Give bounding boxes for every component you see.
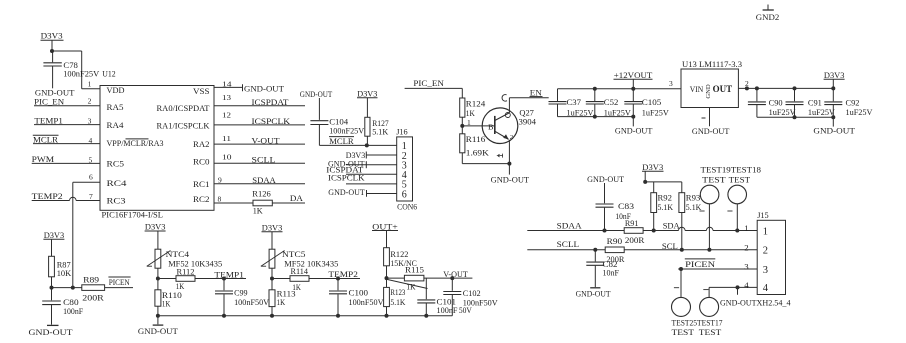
- svg-text:3: 3: [669, 79, 673, 88]
- svg-text:SDA: SDA: [663, 220, 681, 230]
- resistor R114: [290, 276, 309, 282]
- net SDA wire to J15: [643, 230, 678, 232]
- svg-text:C91: C91: [808, 99, 822, 108]
- svg-text:3: 3: [88, 117, 92, 126]
- svg-text:100nF50V: 100nF50V: [463, 297, 499, 307]
- wire base of Q27: [462, 125, 495, 127]
- svg-text:U12: U12: [102, 69, 116, 79]
- svg-text:B: B: [488, 123, 494, 131]
- svg-text:2: 2: [744, 242, 748, 252]
- ground GND-OUT (C80): [47, 324, 59, 326]
- net TEMP2: [309, 278, 360, 280]
- svg-text:100nF: 100nF: [437, 305, 458, 315]
- svg-text:SCL: SCL: [662, 241, 678, 251]
- svg-text:C37: C37: [567, 98, 582, 107]
- svg-text:GND-OUT: GND-OUT: [29, 327, 74, 337]
- svg-text:C92: C92: [846, 99, 860, 108]
- svg-text:J15: J15: [757, 210, 769, 220]
- capacitor C91: [794, 88, 796, 101]
- resistor R124: [460, 98, 465, 117]
- node MCLR/R127 junction: [365, 143, 369, 147]
- svg-text:GND-OUT: GND-OUT: [692, 126, 730, 136]
- wire J15 pin4 / GND-OUT: [709, 286, 757, 288]
- svg-text:1uF25V: 1uF25V: [808, 108, 835, 117]
- thermistor NTC5 MF52 10K3435: [269, 249, 275, 268]
- ground GND2: [767, 5, 769, 10]
- svg-text:D3V3: D3V3: [41, 31, 64, 41]
- svg-text:RC0: RC0: [193, 157, 210, 167]
- svg-text:RA4: RA4: [107, 120, 125, 130]
- resistor R93: [681, 182, 683, 193]
- svg-text:RA2: RA2: [193, 139, 210, 149]
- svg-text:D3V3: D3V3: [642, 162, 664, 172]
- capacitor C83: [596, 203, 614, 205]
- node D3V3/C78 junction: [50, 49, 54, 53]
- svg-text:R114: R114: [291, 266, 309, 276]
- svg-text:R90: R90: [607, 236, 623, 246]
- svg-text:100nF25V: 100nF25V: [329, 125, 365, 135]
- net SCLL (U12 pin10): [214, 162, 305, 164]
- svg-text:GND-OUT: GND-OUT: [300, 89, 333, 99]
- svg-text:TEMP1: TEMP1: [214, 269, 244, 279]
- wire gnd rail (input bank): [558, 116, 634, 118]
- ground port GND-OUT (input bank): [632, 117, 634, 127]
- svg-text:R91: R91: [625, 218, 639, 228]
- port GND-OUT (J16 pin3): [346, 164, 397, 166]
- capacitor C104: [310, 120, 328, 122]
- wire PIC_EN down to R124: [461, 88, 463, 98]
- thermistor NTC4 MF52 10K3435: [155, 249, 161, 268]
- svg-text:NTC4: NTC4: [166, 249, 190, 259]
- resistor R110: [155, 290, 161, 306]
- svg-text:GND2: GND2: [756, 12, 780, 22]
- ground GND-OUT (C82): [590, 287, 600, 289]
- ground port GND-OUT (output bank): [832, 117, 834, 126]
- svg-text:C90: C90: [769, 99, 783, 108]
- svg-text:TEMP2: TEMP2: [328, 269, 358, 279]
- svg-text:TEST: TEST: [699, 327, 722, 337]
- svg-text:1uF25V: 1uF25V: [567, 108, 594, 117]
- svg-text:PICEN: PICEN: [109, 277, 131, 287]
- op-amp U12 PIC16F1704 body: [100, 86, 214, 211]
- svg-text:1K: 1K: [466, 108, 476, 118]
- node SDA/R92: [652, 229, 656, 233]
- capacitor C90: [756, 88, 758, 101]
- svg-text:2: 2: [510, 134, 514, 141]
- node rail/C52: [593, 87, 597, 91]
- net DA (U12 pin8): [272, 202, 305, 204]
- node R122/R115/R123 junction: [386, 266, 388, 288]
- svg-text:XH2.54_4: XH2.54_4: [757, 298, 792, 308]
- svg-text:1uF25V: 1uF25V: [846, 108, 873, 117]
- capacitor C100: [337, 279, 339, 291]
- wire +12V rail top: [558, 88, 682, 90]
- wire gnd rail (output bank): [757, 116, 833, 118]
- node R124/R116/base junction: [461, 117, 463, 134]
- svg-text:10K: 10K: [57, 268, 72, 278]
- svg-text:R126: R126: [252, 188, 271, 198]
- wire D3V3 to U12 pin1: [52, 50, 82, 52]
- svg-text:C102: C102: [463, 288, 481, 298]
- node emitter/GND junction: [507, 162, 511, 166]
- svg-text:9: 9: [218, 176, 222, 185]
- node R87/C80/R89 junction: [51, 277, 53, 288]
- svg-text:VIN: VIN: [690, 84, 704, 94]
- svg-text:TEST: TEST: [729, 175, 751, 185]
- svg-text:RC4: RC4: [107, 178, 128, 188]
- svg-text:SCLL: SCLL: [557, 239, 580, 249]
- svg-text:D3V3: D3V3: [262, 222, 283, 232]
- transistor Q27 2N3904: [482, 108, 518, 144]
- resistor R89: [82, 285, 105, 291]
- svg-text:TEMP2: TEMP2: [32, 191, 63, 201]
- port GND-OUT (U12 pin14): [214, 86, 243, 88]
- svg-text:200R: 200R: [625, 235, 645, 245]
- svg-text:10: 10: [222, 153, 232, 162]
- resistor R126: [214, 202, 253, 204]
- svg-text:R112: R112: [177, 266, 195, 276]
- svg-text:2: 2: [763, 246, 768, 257]
- net TEMP1: [195, 278, 246, 280]
- net SDAA (U12 pin9): [214, 183, 305, 185]
- resistor R113: [269, 290, 275, 307]
- resistor R87: [49, 256, 55, 277]
- svg-text:6: 6: [402, 189, 407, 200]
- svg-text:D3V3: D3V3: [824, 70, 845, 80]
- svg-text:MCLR: MCLR: [33, 134, 58, 144]
- svg-text:6: 6: [89, 173, 93, 182]
- svg-text:RC3: RC3: [107, 195, 127, 205]
- node SDA/TEST18: [735, 229, 739, 233]
- svg-text:VSS: VSS: [193, 86, 210, 96]
- svg-text:RC1: RC1: [193, 179, 210, 189]
- svg-text:SDAA: SDAA: [252, 175, 276, 185]
- net ICSPDAT (J16 pin4): [346, 173, 397, 175]
- net ICSPDAT (U12 pin13): [214, 105, 305, 107]
- svg-text:GND: GND: [705, 84, 712, 99]
- svg-text:RA1/ICSPCLK: RA1/ICSPCLK: [157, 121, 211, 131]
- svg-text:1K: 1K: [253, 206, 264, 216]
- svg-text:5.1K: 5.1K: [686, 202, 702, 212]
- resistor R112: [176, 276, 195, 282]
- resistor R92: [653, 182, 655, 193]
- svg-text:1.69K: 1.69K: [466, 147, 490, 157]
- svg-text:+12VOUT: +12VOUT: [614, 70, 653, 80]
- svg-text:ICSPCLK: ICSPCLK: [252, 116, 291, 126]
- net V-OUT (U12 pin11): [214, 143, 305, 145]
- wire U12 pin6 to PICEN node: [73, 181, 100, 183]
- capacitor C101: [425, 278, 427, 299]
- resistor R127: [365, 117, 370, 136]
- svg-text:2: 2: [88, 97, 92, 106]
- node SCL/R93: [680, 248, 684, 252]
- svg-text:R124: R124: [466, 98, 486, 108]
- svg-text:ICSPCLK: ICSPCLK: [328, 172, 365, 182]
- svg-text:OUT: OUT: [713, 84, 733, 94]
- svg-text:TEST25TEST17: TEST25TEST17: [672, 317, 724, 327]
- svg-text:100nF50V: 100nF50V: [349, 297, 385, 307]
- capacitor C78: [52, 51, 54, 62]
- svg-text:GND-OUT: GND-OUT: [720, 298, 757, 308]
- svg-text:100nF25V: 100nF25V: [63, 69, 100, 79]
- svg-text:R123: R123: [390, 287, 405, 297]
- svg-text:PIC_EN: PIC_EN: [413, 78, 444, 88]
- svg-text:GND-OUT: GND-OUT: [244, 83, 285, 93]
- svg-text:1K: 1K: [406, 282, 416, 292]
- svg-text:TEST: TEST: [672, 327, 695, 337]
- net ICSPCLK (U12 pin12): [214, 124, 305, 126]
- svg-text:U13 LM1117-3.3: U13 LM1117-3.3: [682, 59, 743, 69]
- svg-text:J16: J16: [396, 127, 408, 137]
- capacitor C99: [223, 279, 225, 291]
- svg-text:1: 1: [763, 226, 768, 237]
- capacitor C37: [557, 89, 559, 101]
- svg-text:NTC5: NTC5: [282, 249, 306, 259]
- svg-text:PWM: PWM: [32, 154, 55, 164]
- net MCLR (J16 pin1): [319, 144, 396, 146]
- svg-text:4: 4: [89, 136, 93, 145]
- resistor R90: [605, 247, 624, 253]
- svg-text:DA: DA: [290, 193, 304, 203]
- svg-text:1: 1: [744, 223, 748, 233]
- svg-text:3904: 3904: [519, 117, 537, 127]
- svg-text:RC2: RC2: [193, 194, 210, 204]
- svg-text:PIC_EN: PIC_EN: [34, 97, 65, 107]
- net ICSPCLK (J16 pin5): [346, 183, 397, 185]
- net EN (collector): [509, 97, 548, 99]
- svg-text:1uF25V: 1uF25V: [604, 108, 631, 117]
- svg-text:1uF25V: 1uF25V: [642, 108, 669, 117]
- capacitor C82: [594, 250, 596, 262]
- svg-text:OUT+: OUT+: [372, 221, 398, 231]
- net V-OUT: [424, 277, 473, 279]
- resistor R115 (NC strike): [404, 275, 424, 281]
- svg-text:4: 4: [763, 283, 769, 294]
- svg-text:100nF: 100nF: [63, 306, 83, 316]
- svg-text:MCLR: MCLR: [329, 136, 354, 146]
- svg-text:SDAA: SDAA: [557, 221, 583, 231]
- net PICEN wire to J15: [685, 258, 716, 260]
- svg-text:TEMP1: TEMP1: [34, 115, 63, 125]
- svg-text:200R: 200R: [82, 292, 104, 302]
- node NTC4/R110/R112 junction: [157, 268, 159, 290]
- ground GND-OUT (bottom rail): [157, 316, 159, 325]
- node TEMP1/C99 junction: [222, 277, 226, 281]
- node SCLL/C82: [593, 248, 597, 252]
- svg-text:1K: 1K: [162, 298, 171, 308]
- test point TEST17: [700, 297, 719, 316]
- svg-text:12: 12: [222, 111, 231, 120]
- svg-text:11: 11: [222, 134, 231, 143]
- svg-text:GND-OUT: GND-OUT: [576, 289, 612, 299]
- svg-text:1K: 1K: [277, 297, 286, 307]
- port D3V3 (J16 pin2): [366, 154, 396, 156]
- svg-text:R89: R89: [83, 274, 100, 284]
- svg-text:C52: C52: [604, 98, 619, 107]
- svg-text:GND-OUT: GND-OUT: [491, 174, 530, 184]
- net PICEN (left): [105, 287, 133, 289]
- svg-text:D3V3: D3V3: [357, 89, 378, 99]
- svg-text:1uF25V: 1uF25V: [769, 108, 796, 117]
- svg-text:1: 1: [88, 79, 92, 88]
- resistor R122 15K/NC: [384, 248, 390, 266]
- svg-text:5.1K: 5.1K: [372, 127, 389, 137]
- port GND-OUT (J16 pin6): [367, 193, 397, 195]
- svg-text:10nF: 10nF: [603, 268, 620, 278]
- svg-text:GND-OUT: GND-OUT: [615, 126, 653, 136]
- svg-text:RA0/ICSPDAT: RA0/ICSPDAT: [157, 103, 211, 113]
- wire R116 to emitter node: [461, 153, 463, 164]
- svg-text:V-OUT: V-OUT: [252, 135, 281, 145]
- capacitor C80: [51, 288, 53, 301]
- svg-text:CON6: CON6: [397, 201, 418, 211]
- ground pin U13: [709, 108, 711, 127]
- svg-text:GND-OUT: GND-OUT: [587, 174, 625, 184]
- capacitor C52: [594, 89, 596, 101]
- node PICEN/TEST25: [679, 267, 683, 271]
- node rail/C105: [631, 87, 635, 91]
- test point TEST25: [680, 269, 682, 297]
- svg-text:7: 7: [89, 192, 93, 201]
- svg-text:3: 3: [763, 265, 768, 276]
- node SDAA/C83: [603, 229, 607, 233]
- resistor R116: [460, 134, 465, 153]
- svg-text:R116: R116: [466, 134, 486, 144]
- capacitor C102: [451, 278, 453, 291]
- svg-text:TEST: TEST: [702, 175, 726, 185]
- svg-text:13: 13: [222, 93, 231, 102]
- svg-text:GND-OUT: GND-OUT: [813, 125, 855, 135]
- svg-text:EN: EN: [530, 87, 543, 97]
- wire 3V3 rail top: [738, 87, 833, 89]
- svg-text:RA5: RA5: [107, 102, 125, 112]
- svg-text:C83: C83: [618, 201, 635, 211]
- svg-text:SCLL: SCLL: [252, 155, 276, 165]
- node V-OUT/C102 junction: [450, 276, 454, 280]
- svg-text:R115: R115: [405, 264, 425, 274]
- node TEMP2/C100 junction: [336, 277, 340, 281]
- svg-text:5.1K: 5.1K: [390, 297, 406, 307]
- node SCL/TEST19: [707, 248, 711, 252]
- svg-text:C105: C105: [642, 98, 662, 107]
- node D3V3/R92/R93: [643, 180, 647, 184]
- resistor R91: [624, 228, 643, 234]
- capacitor C92: [832, 88, 834, 101]
- svg-text:D3V3: D3V3: [145, 222, 166, 232]
- ground port GND-OUT (Q27): [508, 164, 510, 175]
- svg-text:GND-OUT: GND-OUT: [328, 187, 365, 197]
- svg-text:ICSPDAT: ICSPDAT: [252, 97, 290, 107]
- resistor R123: [384, 287, 390, 306]
- svg-text:VDD: VDD: [107, 85, 125, 95]
- svg-text:TEST19TEST18: TEST19TEST18: [701, 164, 762, 174]
- svg-text:3: 3: [744, 262, 749, 272]
- svg-text:PICEN: PICEN: [685, 259, 716, 269]
- svg-text:RC5: RC5: [107, 159, 125, 169]
- svg-text:4: 4: [744, 280, 749, 290]
- node NTC5/R113/R114 junction: [271, 268, 273, 290]
- capacitor C105: [632, 89, 634, 101]
- svg-text:5.1K: 5.1K: [658, 202, 674, 212]
- svg-text:14: 14: [222, 79, 232, 88]
- svg-text:V-OUT: V-OUT: [443, 269, 468, 279]
- svg-text:D3V3: D3V3: [44, 230, 65, 240]
- net SCL wire to J15: [624, 249, 757, 251]
- wire ground rail bottom: [158, 315, 452, 317]
- svg-text:100nF50V: 100nF50V: [234, 297, 270, 307]
- svg-text:PIC16F1704-I/SL: PIC16F1704-I/SL: [102, 211, 164, 220]
- svg-text:5: 5: [89, 155, 93, 164]
- svg-text:8: 8: [218, 195, 222, 204]
- svg-text:GND-OUT: GND-OUT: [138, 326, 179, 336]
